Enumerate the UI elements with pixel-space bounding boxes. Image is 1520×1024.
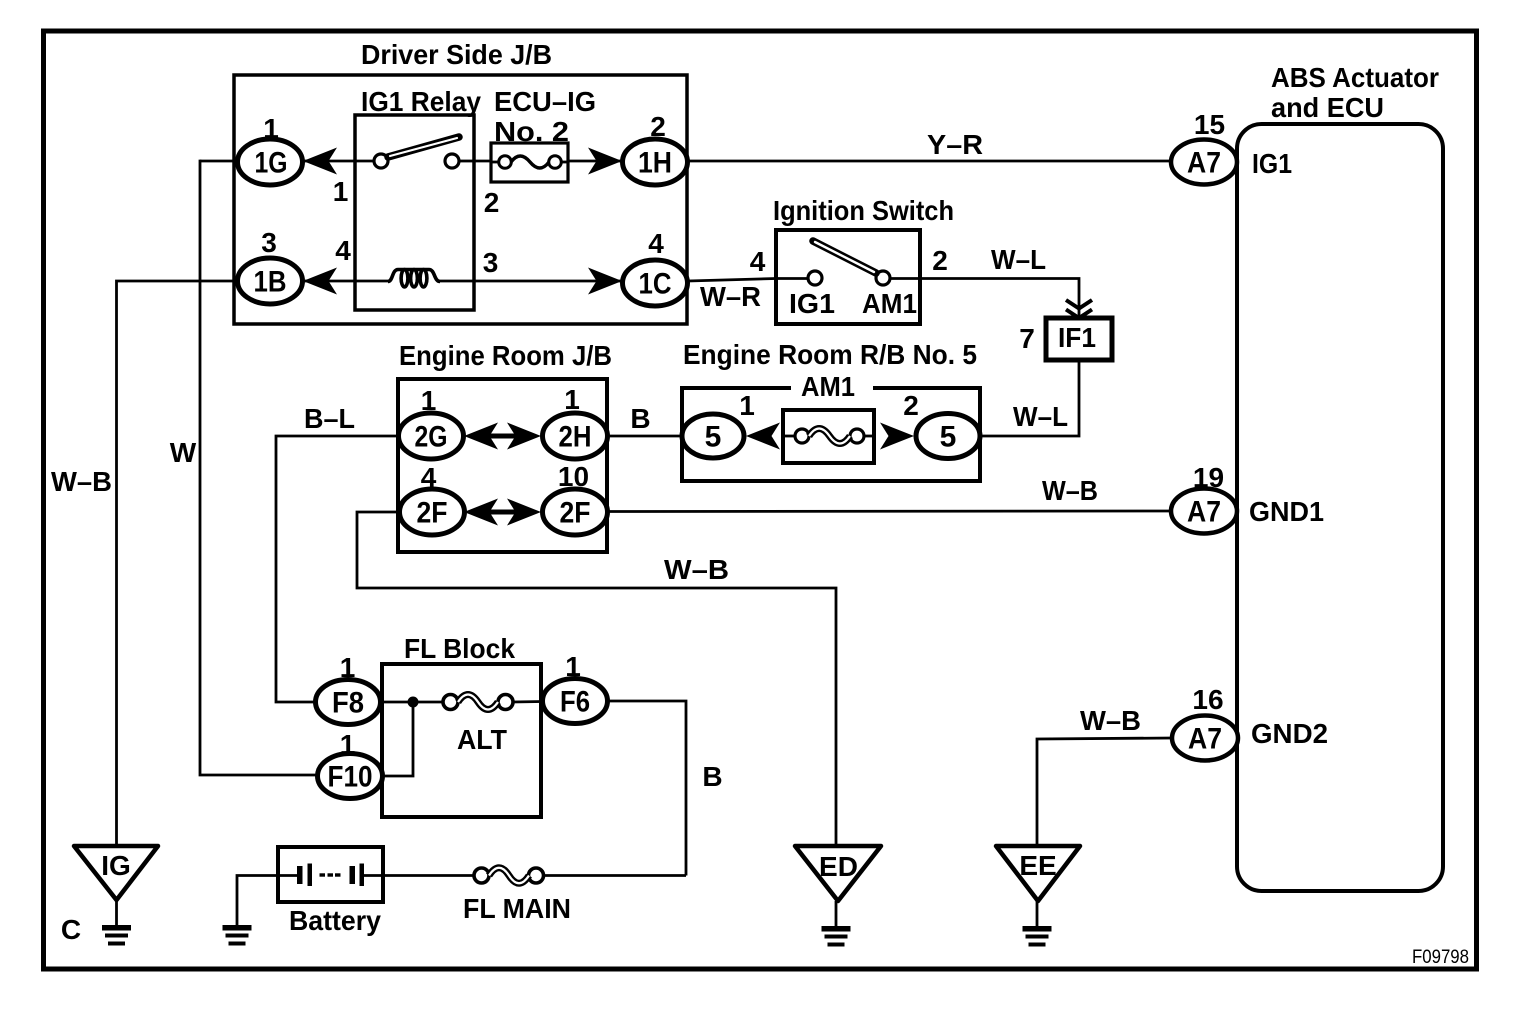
svg-text:F10: F10: [328, 761, 373, 794]
switch Ignition Switch: [773, 195, 954, 324]
battery: [278, 847, 383, 936]
connector 1C: [623, 228, 688, 306]
svg-text:10: 10: [558, 461, 589, 492]
svg-text:IF1: IF1: [1058, 322, 1096, 353]
arrow into 1H: [588, 148, 622, 175]
svg-text:2H: 2H: [559, 421, 592, 454]
arrow into 1C: [588, 268, 622, 295]
connector F10: [318, 729, 383, 799]
svg-text:16: 16: [1192, 684, 1223, 715]
svg-text:1: 1: [564, 384, 580, 415]
wire B: 2H to R/B No.5 left 5: [607, 435, 683, 438]
svg-text:W–R: W–R: [700, 281, 761, 312]
svg-text:1G: 1G: [255, 147, 288, 180]
fuse ECU-IG No.2: [491, 86, 596, 182]
svg-text:2: 2: [650, 111, 666, 142]
svg-text:1: 1: [340, 652, 356, 683]
wire W net: 1G left down x=200 to F10: [200, 160, 318, 775]
svg-text:7: 7: [1019, 323, 1035, 354]
svg-text:4: 4: [335, 235, 351, 266]
fusible link block FL Block: [382, 664, 541, 817]
svg-text:GND1: GND1: [1249, 496, 1324, 527]
connector 1G: [238, 113, 303, 185]
svg-text:ABS Actuator: ABS Actuator: [1271, 62, 1439, 93]
relay block Engine Room R/B No. 5: [682, 339, 980, 481]
connector pair chevrons above IF1: [1066, 300, 1092, 318]
svg-text:Ignition Switch: Ignition Switch: [773, 195, 954, 226]
svg-text:Battery: Battery: [289, 905, 381, 936]
svg-text:1: 1: [421, 385, 437, 416]
svg-text:W–B: W–B: [51, 466, 112, 497]
svg-text:IG1: IG1: [1252, 148, 1292, 179]
svg-text:Driver Side J/B: Driver Side J/B: [361, 39, 552, 70]
double arrow 2G-2H: [464, 423, 541, 450]
wire W-B: 2F right to A7 GND1: [607, 510, 1171, 513]
svg-text:2F: 2F: [560, 497, 591, 530]
wire ED triangle stem: [835, 901, 838, 926]
svg-text:IG1 Relay: IG1 Relay: [361, 86, 481, 117]
wire W-B: A7 GND2 to EE ground: [1037, 738, 1172, 846]
svg-text:1: 1: [263, 113, 279, 144]
svg-text:B–L: B–L: [304, 403, 355, 434]
connector 5 left: [682, 390, 755, 458]
svg-text:W–B: W–B: [1042, 475, 1098, 506]
svg-text:1C: 1C: [639, 268, 672, 301]
ground triangle EE: [996, 846, 1080, 901]
wire row2: left branch x=116.5 from 1B down to IG ground: [117, 281, 238, 845]
ground EE: [1023, 926, 1052, 947]
svg-text:4: 4: [421, 462, 437, 493]
svg-text:W–B: W–B: [1080, 705, 1141, 736]
svg-text:1: 1: [340, 729, 356, 760]
svg-text:B: B: [630, 403, 650, 434]
svg-text:W–L: W–L: [991, 244, 1046, 275]
arrow into 1B: [303, 268, 337, 295]
svg-text:15: 15: [1194, 109, 1225, 140]
svg-text:ED: ED: [819, 851, 858, 882]
svg-text:Y–R: Y–R: [927, 129, 983, 160]
svg-text:C: C: [61, 914, 81, 945]
wire coil right to 1C and ignition switch: [474, 279, 808, 282]
svg-text:5: 5: [705, 421, 722, 454]
ECU box ABS Actuator and ECU: [1237, 62, 1443, 891]
wire W-L: switch AM1 pin to IF1 top: [890, 279, 1079, 319]
svg-text:IG: IG: [101, 850, 131, 881]
ground battery: [223, 925, 252, 946]
svg-text:2F: 2F: [417, 497, 448, 530]
wire W-B: 2F left down and over to ED ground: [357, 512, 836, 846]
svg-text:1H: 1H: [638, 147, 672, 180]
wire B: F6 right down to FL MAIN wire: [608, 701, 686, 876]
svg-text:2: 2: [903, 390, 919, 421]
svg-text:B: B: [702, 761, 722, 792]
svg-text:19: 19: [1193, 462, 1224, 493]
svg-text:A7: A7: [1187, 147, 1221, 180]
relay coil: [388, 270, 440, 287]
connector 2F left: [400, 462, 465, 535]
svg-text:1: 1: [565, 651, 581, 682]
fuse AM1: [783, 410, 874, 463]
svg-text:3: 3: [261, 227, 277, 258]
svg-text:W–B: W–B: [664, 554, 729, 585]
svg-text:IG1: IG1: [789, 288, 835, 319]
arrow into 1G: [303, 148, 337, 175]
wire battery minus to ground: [237, 876, 278, 926]
svg-text:1: 1: [739, 390, 755, 421]
connector A7 pin 15 IG1: [1171, 109, 1292, 185]
svg-text:AM1: AM1: [801, 371, 855, 402]
svg-text:5: 5: [940, 421, 957, 454]
svg-text:A7: A7: [1187, 496, 1221, 529]
svg-text:EE: EE: [1019, 850, 1056, 881]
junction box Engine Room J/B: [398, 379, 607, 552]
svg-text:W: W: [170, 437, 197, 468]
svg-text:F6: F6: [560, 686, 590, 719]
connector 2F right: [543, 461, 608, 535]
wire ALT fuse to F6: [512, 700, 543, 703]
svg-text:FL Block: FL Block: [404, 633, 515, 664]
svg-text:2: 2: [484, 187, 500, 218]
svg-text:AM1: AM1: [862, 288, 917, 319]
svg-text:FL MAIN: FL MAIN: [463, 893, 571, 924]
connector 1B: [238, 227, 303, 304]
wire FL MAIN fuse to corner: [543, 874, 687, 877]
relay contact pins: [374, 154, 388, 168]
svg-text:Engine Room R/B No. 5: Engine Room R/B No. 5: [683, 339, 977, 370]
wire FL block: F8 to ALT fuse to F6: [380, 701, 444, 704]
svg-text:and ECU: and ECU: [1271, 92, 1384, 123]
wire B-L: 2G left to x=276 down to F8: [276, 436, 399, 702]
wire relay contact to fuse to 1H to A7 IG1 (Y-R): [459, 160, 1171, 163]
svg-text:2G: 2G: [415, 421, 448, 454]
connector A7 pin 19 GND1: [1171, 462, 1324, 534]
junction dot FL Block: [408, 697, 419, 708]
svg-text:F09798: F09798: [1412, 947, 1469, 968]
relay lever: [388, 137, 459, 157]
fuse IF1: [1046, 318, 1112, 360]
svg-text:4: 4: [648, 228, 664, 259]
connector F8: [316, 652, 381, 725]
svg-text:GND2: GND2: [1251, 718, 1328, 749]
connector 2H: [543, 384, 608, 459]
wire W-L: IF1 bottom to 5 right: [980, 360, 1079, 436]
connector 2G: [399, 385, 464, 459]
svg-text:3: 3: [483, 247, 499, 278]
ground triangle ED: [795, 846, 881, 901]
svg-text:Engine Room J/B: Engine Room J/B: [399, 340, 612, 371]
wire battery plus to FL MAIN fuse: [383, 874, 475, 877]
connector 1H: [623, 111, 688, 185]
wire IG triangle stem: [115, 900, 118, 925]
svg-text:No. 2: No. 2: [494, 116, 569, 147]
arrow into 5 right: [880, 423, 914, 450]
fuse ALT: [443, 695, 513, 756]
junction box Driver Side J/B: [234, 75, 687, 324]
svg-text:4: 4: [750, 246, 766, 277]
wire junction to F10: [383, 702, 413, 776]
svg-text:ECU–IG: ECU–IG: [494, 86, 596, 117]
wire row2: 1B to relay coil to 1C to Ignition Switch IG1 pin: [303, 280, 355, 283]
svg-text:F8: F8: [332, 687, 364, 720]
svg-text:A7: A7: [1188, 723, 1222, 756]
svg-text:W–L: W–L: [1013, 401, 1068, 432]
ground IG: [102, 925, 131, 946]
double arrow 2F-2F: [464, 499, 541, 526]
wire EE triangle stem: [1036, 901, 1039, 926]
ground ED: [822, 926, 851, 947]
ground triangle IG: [74, 846, 158, 900]
fuse FL MAIN: [463, 868, 571, 924]
svg-text:ALT: ALT: [457, 724, 507, 755]
svg-text:1: 1: [333, 176, 349, 207]
connector F6: [543, 651, 608, 724]
svg-text:1B: 1B: [254, 266, 287, 299]
connector A7 pin 16 GND2: [1172, 684, 1328, 761]
wire row1 Y-R net: 1G to relay contact: [200, 160, 374, 163]
svg-text:2: 2: [932, 245, 948, 276]
relay IG1 Relay: [355, 115, 474, 310]
connector 5 right: [903, 390, 980, 459]
arrow into 5 left: [746, 423, 780, 450]
